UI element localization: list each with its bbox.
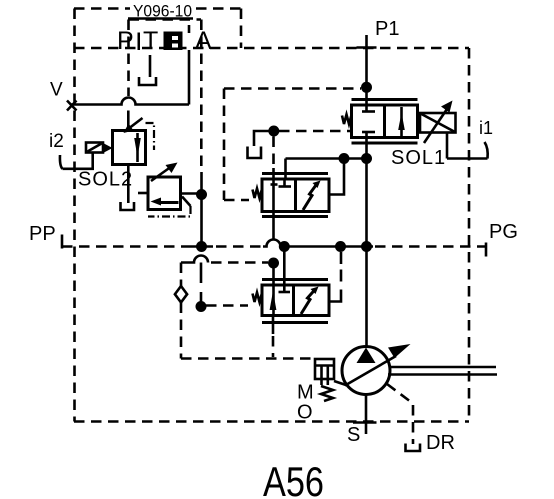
svg-text:O: O <box>297 402 313 424</box>
svg-text:P1: P1 <box>375 18 399 40</box>
svg-text:SOL2: SOL2 <box>78 169 133 191</box>
svg-text:A56: A56 <box>263 458 324 499</box>
svg-text:PP: PP <box>29 223 56 245</box>
svg-text:A: A <box>195 27 212 55</box>
svg-text:S: S <box>347 424 360 446</box>
svg-text:DR: DR <box>426 432 455 454</box>
svg-text:T: T <box>143 27 158 55</box>
svg-text:M: M <box>297 382 314 404</box>
svg-text:P: P <box>117 27 134 55</box>
svg-text:i1: i1 <box>479 118 493 138</box>
svg-text:SOL1: SOL1 <box>391 147 446 169</box>
svg-text:i2: i2 <box>49 131 64 152</box>
svg-text:PG: PG <box>489 221 518 243</box>
svg-text:V: V <box>50 80 63 101</box>
